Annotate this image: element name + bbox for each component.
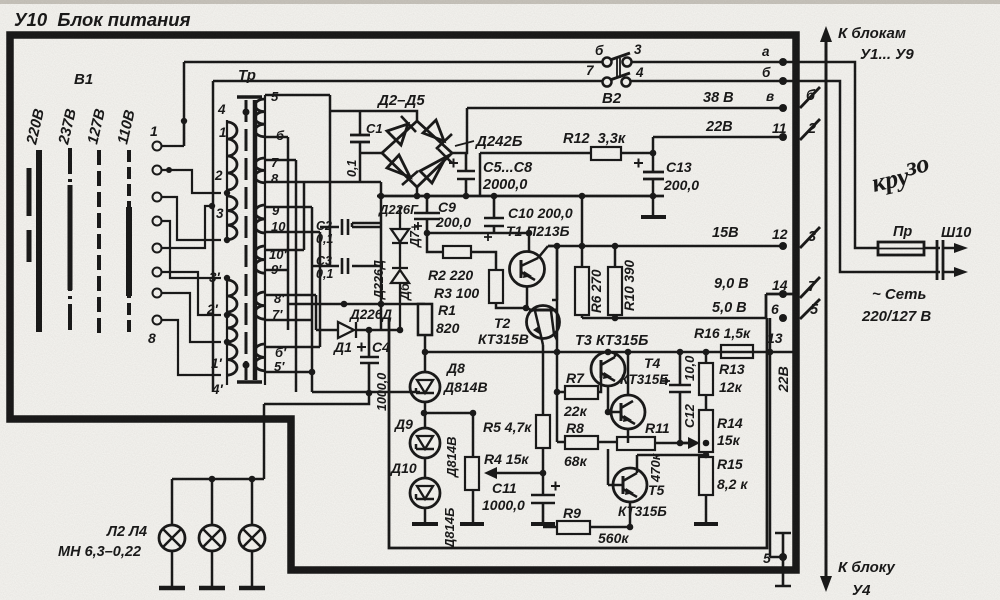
primary winding section 1' coils bbox=[227, 344, 237, 375]
wire 770 to 5 pin bbox=[770, 556, 783, 559]
label D242B with leader bbox=[455, 141, 474, 146]
inner vertical bus x770 bbox=[769, 318, 772, 557]
wire y223 stub bbox=[352, 223, 381, 227]
resistor R7 bbox=[565, 386, 598, 399]
riser to D1 from ladder bbox=[315, 295, 318, 330]
zener D10 circle bbox=[410, 478, 440, 508]
link rail196 to 15V rail bbox=[581, 196, 584, 246]
junction dots rectifier bbox=[309, 193, 470, 397]
lamp L4 stem bbox=[251, 479, 254, 588]
plug Sh10 bars bbox=[937, 240, 943, 280]
lamp rail bbox=[172, 478, 264, 481]
inner stabilizer box bbox=[389, 318, 767, 548]
resistor R9 bbox=[557, 521, 590, 534]
secondary winding 7-8 coils bbox=[255, 158, 265, 183]
pin 5 feedthrough bbox=[775, 533, 791, 586]
bridge diode bottom-right bbox=[420, 157, 446, 183]
row 22V wire bbox=[653, 136, 783, 139]
wire D10 bottom to ground bbox=[424, 508, 427, 524]
wire tap ladder vertical x320 bbox=[319, 232, 322, 347]
zener D8 circle bbox=[410, 372, 440, 402]
wire contact4 to tap 278 bbox=[162, 221, 221, 278]
switch B2 contacts bbox=[603, 58, 612, 67]
15V rail y246 bbox=[548, 245, 783, 248]
primary winding section 2' coils bbox=[227, 314, 237, 342]
lamp L2 stem bbox=[171, 479, 174, 588]
capacitor C1 plates bbox=[350, 135, 370, 142]
secondary winding 8'-7' coils bbox=[255, 292, 265, 319]
capacitor C13 plates bbox=[643, 172, 664, 179]
plus sign C5-C8 bbox=[449, 159, 458, 168]
T1 collector line bbox=[521, 246, 548, 266]
T3 base bar bbox=[600, 360, 603, 378]
zener D9 circle bbox=[410, 428, 440, 458]
wire C2 row bbox=[320, 226, 381, 229]
secondary winding 5-6 coils bbox=[255, 99, 265, 137]
lamp L2 bbox=[159, 525, 185, 551]
mains arrow top bbox=[943, 247, 962, 250]
B1 wafer bar 110V dashed bbox=[127, 150, 131, 334]
wire D1 row bbox=[316, 329, 400, 332]
T2 collector slant bbox=[551, 311, 557, 340]
wire tap ladder vertical x312 bbox=[311, 207, 314, 392]
resistor R14 vertical bbox=[699, 410, 713, 452]
diode D1 bbox=[338, 322, 356, 338]
bridge diode bottom-left bbox=[387, 155, 410, 177]
B1 wafer bar 127V dashed bbox=[97, 150, 101, 333]
plus C9 bbox=[414, 222, 422, 230]
GROUP: regulator bbox=[390, 193, 573, 549]
wire contact3 to tap 240 bbox=[162, 197, 221, 240]
wire C1 column and bridge left bbox=[360, 111, 382, 182]
resistor R12 bbox=[591, 147, 621, 160]
diode bridge diamond bbox=[382, 121, 452, 187]
wire b to mains bbox=[783, 81, 940, 272]
fuse Pr bbox=[878, 242, 924, 255]
R11-C12-R14 wire bbox=[680, 442, 697, 445]
resistor R4 vertical bbox=[465, 457, 479, 490]
resistor R11 bbox=[617, 437, 655, 450]
resistor R8 bbox=[565, 436, 598, 449]
R5 bottom wire bbox=[542, 448, 545, 495]
transistor T1 circle bbox=[510, 252, 545, 287]
junction dots regulator right bbox=[422, 243, 774, 531]
wire tap 347 bbox=[265, 346, 320, 349]
wire tap 372 bbox=[265, 371, 312, 374]
primary spine bbox=[226, 120, 228, 385]
R9 wires bbox=[543, 526, 630, 529]
wire tap 160 bbox=[265, 159, 296, 162]
down arrow to U4 bbox=[820, 576, 832, 592]
resistor R5 vertical bbox=[536, 415, 550, 448]
GROUP: rectifier area bbox=[264, 92, 664, 479]
core polarity dot top bbox=[243, 109, 250, 116]
outer border of unit U10 bbox=[10, 35, 796, 570]
T1 emitter down bbox=[527, 286, 533, 311]
secondary labels bbox=[269, 89, 287, 374]
core solid line bbox=[253, 100, 258, 380]
secondary winding 6'-5' coils bbox=[255, 344, 265, 371]
wire contact6 to tap 315 bbox=[162, 272, 221, 315]
R8 left wire bbox=[557, 441, 565, 444]
ground bar zeners bbox=[412, 522, 438, 526]
lamp junction dots bbox=[209, 476, 256, 483]
D8 symbol bbox=[417, 380, 433, 393]
GROUP: transformer bbox=[206, 67, 287, 397]
B2 link bar bbox=[617, 58, 620, 78]
resistor R16 bbox=[721, 345, 753, 358]
collector riser T1 to 15V rail bbox=[548, 246, 557, 300]
plus C11 bbox=[551, 482, 560, 491]
ground bar R4 bbox=[460, 522, 484, 526]
capacitor C4 bbox=[360, 330, 379, 393]
core top T bar bbox=[237, 95, 262, 99]
R6 wires bbox=[581, 246, 584, 318]
wire tap 295 bbox=[265, 294, 316, 297]
B1 wafer bar 220V bbox=[36, 150, 42, 332]
resistor R13 vertical bbox=[699, 363, 713, 395]
B2 moving contact top bbox=[610, 53, 630, 60]
mains arrow bottom bbox=[943, 271, 962, 274]
resistor R1 vertical bbox=[418, 304, 432, 335]
ground bar C13 bbox=[641, 215, 666, 219]
R4 wires bbox=[472, 490, 475, 524]
wire zener mid to R4 R5 bbox=[424, 413, 473, 457]
core bottom T bar bbox=[237, 380, 262, 384]
5V rail y318 bbox=[582, 317, 767, 320]
transistor T3 circle bbox=[591, 352, 625, 386]
wire tap 320 bbox=[265, 319, 312, 322]
T3 emitter arrow bbox=[601, 373, 615, 405]
core polarity dot bottom bbox=[243, 362, 250, 369]
wire tap ladder vertical x296 bbox=[295, 160, 298, 392]
wire winding5 top to bridge top bbox=[265, 95, 417, 266]
wire R1 to D8 bbox=[424, 335, 427, 372]
ground bar lamp L2 bbox=[159, 586, 185, 591]
capacitor C3 plates bbox=[342, 258, 348, 274]
T2 base bar bbox=[529, 309, 556, 312]
secondary spine bbox=[264, 95, 266, 385]
right connector slant pin 6 bbox=[800, 87, 820, 108]
wire tap 232 bbox=[265, 231, 320, 234]
R12 wire bbox=[480, 152, 653, 155]
plus C13 bbox=[634, 159, 643, 168]
R8 to R11 wire bbox=[598, 441, 617, 444]
row b wire right bbox=[630, 80, 783, 83]
capacitor C5-C8 electrolytic bbox=[457, 153, 475, 196]
capacitor C11 bbox=[531, 495, 555, 524]
rail y352 bbox=[425, 351, 753, 354]
row a riser bbox=[183, 62, 186, 146]
secondary winding 10'-9' coils bbox=[255, 246, 265, 273]
T4 base wire bbox=[608, 405, 621, 412]
capacitor C10 bbox=[484, 196, 504, 233]
transistor T5 circle bbox=[613, 468, 647, 502]
resistor R10 vertical bbox=[608, 267, 622, 315]
row b wire left bbox=[213, 80, 603, 83]
R12 riser to rail bbox=[479, 153, 482, 196]
ground bar C11 bbox=[531, 522, 555, 526]
transistor T4 circle bbox=[611, 395, 645, 429]
R4 wiper arrow bbox=[492, 472, 542, 475]
wire y392 bbox=[312, 391, 420, 394]
lamp L4 bbox=[239, 525, 265, 551]
T5 emitter arrow bbox=[623, 489, 637, 527]
transistor T2 circle bbox=[527, 306, 560, 339]
T1 base bar bbox=[520, 260, 523, 278]
T4 base bar bbox=[620, 403, 623, 421]
vertical x557 bbox=[556, 246, 559, 442]
wire tap 137 bbox=[265, 136, 288, 139]
wire bridge bottom to rail bbox=[416, 187, 419, 196]
GROUP: lamps bbox=[58, 476, 265, 588]
riser rail to winding wire bbox=[380, 182, 383, 330]
lamp L3 bbox=[199, 525, 225, 551]
capacitor C2 plates bbox=[342, 219, 348, 235]
GROUP: top rows and right column bbox=[184, 25, 971, 599]
cable to units U1-U9 with up arrow bbox=[825, 40, 828, 578]
GROUP: regulator right part bbox=[389, 196, 796, 548]
plus C10 bbox=[484, 233, 492, 241]
wire contact8 to tap 375 bbox=[162, 320, 221, 375]
primary winding section 3' coils bbox=[227, 280, 237, 312]
wire tap 270 bbox=[265, 269, 288, 272]
B1 wafer bar 237V thick mid bbox=[68, 185, 73, 290]
main rail y196 bbox=[377, 195, 664, 198]
right connector slant pin 5 bbox=[800, 299, 820, 319]
capacitor C12 bbox=[669, 352, 691, 443]
fuse to plug wire bbox=[924, 247, 940, 250]
right connector slant pin 7 bbox=[800, 277, 820, 298]
T5 base bar bbox=[622, 476, 625, 494]
bridge diode top-right bbox=[423, 120, 444, 141]
border pin dots bbox=[579, 58, 787, 561]
T5 collector bbox=[623, 455, 706, 481]
row b riser bbox=[212, 81, 215, 392]
resistor R2 bbox=[443, 246, 471, 258]
wire contact7 to tap 342 bbox=[162, 293, 221, 342]
GROUP: lamps bbox=[0, 0, 1, 1]
wire R2 row bbox=[427, 233, 496, 270]
lamp feed from C4 bbox=[264, 393, 369, 479]
secondary winding 9-10 coils bbox=[255, 205, 265, 233]
pin 6 box bbox=[766, 294, 796, 318]
ground bar lamp L3 bbox=[199, 586, 225, 591]
T5 base wire bbox=[608, 449, 623, 485]
B1 wafer bar 110V thick mid bbox=[126, 207, 132, 296]
primary winding section 1-2 coils bbox=[227, 122, 237, 190]
diode D7 bbox=[391, 207, 409, 267]
capacitor C9 bbox=[414, 196, 440, 233]
wire y304 from ladder to R1 bbox=[288, 303, 425, 306]
lamp L3 stem bbox=[211, 479, 214, 588]
T4 collector bbox=[621, 352, 633, 408]
right connector slant pin 2 bbox=[800, 119, 820, 140]
R13 wires bbox=[705, 352, 708, 410]
junction dots B1 mesh bbox=[166, 118, 215, 209]
R7 left wire bbox=[557, 391, 565, 394]
T3 base wire from R7 bbox=[598, 378, 601, 392]
contact circles 1..8 bbox=[153, 142, 162, 325]
resistor R15 vertical bbox=[699, 457, 713, 495]
wire contact5 to tap 206 junction bbox=[162, 206, 213, 248]
T1 riser top bbox=[528, 233, 531, 252]
D10 symbol bbox=[417, 486, 433, 499]
wire R3 bottom to T2 bbox=[496, 303, 526, 308]
ground bar R15 bbox=[694, 522, 718, 526]
wire contact2 to tap 193 bbox=[162, 170, 221, 193]
R15 wires bbox=[705, 452, 708, 524]
wire D8-D9 bbox=[424, 402, 427, 428]
core dashed line bbox=[245, 100, 248, 380]
row v 38V wire bbox=[467, 107, 783, 110]
right connector slant pin 3 bbox=[800, 227, 820, 248]
resistor R3 vertical bbox=[489, 270, 503, 303]
R10 wires bbox=[614, 246, 617, 318]
B1 wafer bar 237V dash-dot bbox=[68, 148, 72, 333]
plus sign C4 bbox=[357, 343, 366, 352]
row a wire right bbox=[631, 61, 783, 64]
T1 emitter line with arrow bbox=[521, 272, 535, 280]
T2 emitter to R5 bbox=[542, 345, 545, 415]
primary tap dots bbox=[224, 190, 230, 345]
wire a to fuse bbox=[783, 62, 878, 248]
primary labels bbox=[206, 102, 227, 397]
wire C3 row bbox=[312, 265, 381, 268]
D9 symbol bbox=[417, 436, 433, 449]
B1 wafer bar 220V short segments bbox=[27, 168, 32, 262]
R11 right wire to R14 wiper bbox=[655, 442, 692, 445]
resistor R6 vertical bbox=[575, 267, 589, 315]
wire D9-D10 bbox=[424, 458, 427, 478]
row a wire left bbox=[184, 61, 603, 64]
plus C12 bbox=[662, 377, 670, 385]
diode D6 bbox=[391, 268, 409, 330]
B2 moving contact bottom bbox=[610, 73, 630, 80]
wire base T1 row y233 bbox=[427, 232, 529, 235]
wire contact1 to row a riser bbox=[162, 121, 184, 146]
GROUP: B1 selector bbox=[23, 71, 221, 375]
junction dots regulator left bbox=[421, 193, 547, 477]
wire bridge plus to C5-C8 and riser to 38V bbox=[452, 108, 467, 153]
wire tap 207 bbox=[265, 206, 312, 209]
bridge diode top-left bbox=[387, 124, 408, 145]
wire tap 250 bbox=[265, 182, 304, 250]
resistor R1 redraw over rail bbox=[418, 304, 432, 335]
wire tap 182 to rectifier rail riser bbox=[265, 181, 381, 184]
wire tap ladder vertical x288 bbox=[287, 137, 290, 330]
C13 riser bbox=[652, 137, 655, 215]
T4 emitter arrow bbox=[621, 416, 635, 443]
T3 collector bbox=[601, 352, 615, 365]
ground bar lamp L4 bbox=[239, 586, 265, 591]
R16 right wire bbox=[753, 351, 796, 354]
primary winding section 3 coils bbox=[227, 196, 237, 240]
T2 emitter slant bbox=[535, 311, 543, 345]
